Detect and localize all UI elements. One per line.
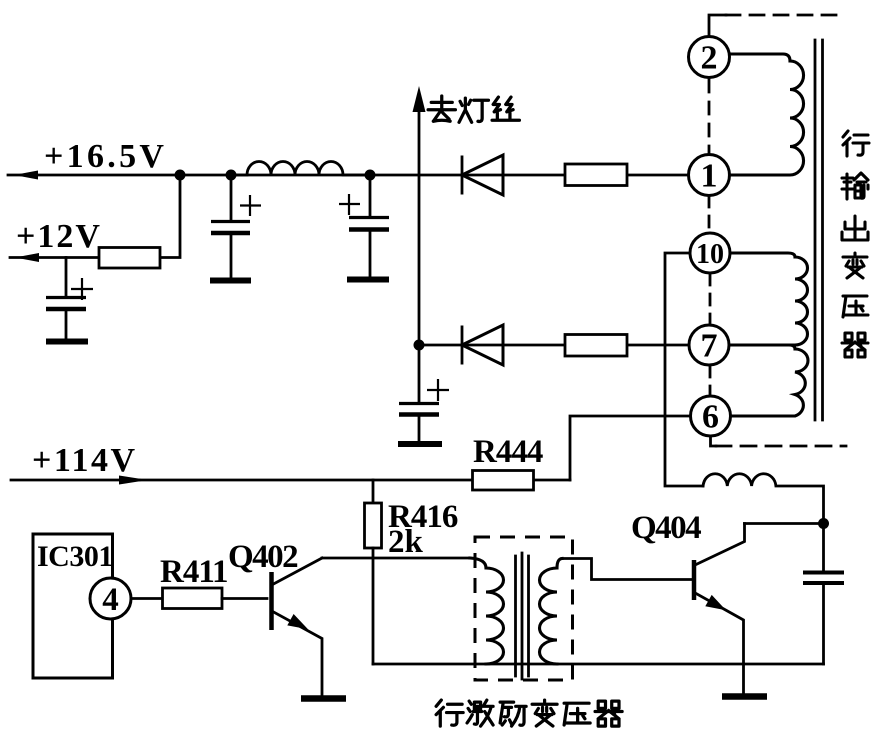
pin 6 circle of flyback (691, 396, 731, 436)
ground under Q404 (722, 693, 767, 700)
label char 变 (843, 253, 867, 278)
svg-text:R444: R444 (473, 434, 543, 470)
resistor (12V dropper, unlabelled) (99, 248, 160, 269)
flyback core line 2 (821, 40, 824, 420)
resistor (series with D2, unlabelled) (565, 335, 627, 357)
drive transformer dashed box (475, 537, 573, 680)
dashed link pin10-pin7 (709, 274, 712, 324)
transistor Q404 (694, 524, 745, 694)
resistor R444 (473, 471, 534, 491)
wire Q404 collector node (745, 522, 824, 525)
svg-text:+16.5V: +16.5V (44, 138, 167, 175)
wire below pin6 then dashed right (711, 436, 717, 446)
junction node at x=370 y=175 (365, 170, 376, 181)
svg-text:2: 2 (701, 40, 718, 77)
wire y=345 from filament line to diode D2 (419, 344, 689, 347)
wire pin10 left then down (x=665) (665, 253, 703, 486)
wire from +16.5V rail down to +12V dropper resistor (160, 175, 180, 258)
label char 励 (500, 702, 526, 726)
svg-text:Q402: Q402 (228, 539, 298, 575)
resistor R411 (163, 588, 223, 609)
wire pin4 to R411 (131, 597, 163, 600)
label 行输出变压器 char 行 (843, 131, 869, 156)
wire Q402 collector to drive transformer primary (322, 557, 470, 560)
svg-text:+12V: +12V (16, 218, 102, 255)
wire: filament feed vertical (x=419) (418, 108, 421, 403)
capacitor C-b (electrolytic right of choke) (339, 175, 389, 280)
label char 器 (595, 701, 622, 726)
arrow left on +12V wire (15, 253, 39, 262)
label 去灯丝 (to filament) char 去 (428, 96, 455, 121)
dashed wire top (726, 14, 846, 17)
label char 激 (467, 700, 493, 726)
inductor L (filter choke on 16.5V rail) (231, 162, 370, 176)
dashed link pin1-pin10 (708, 196, 711, 232)
label 行激励变压器 char 行 (436, 700, 463, 726)
net +16.5V rail wire (y=175) (8, 174, 689, 177)
ground under Q402 (301, 695, 346, 702)
label char 丝 (492, 97, 519, 120)
bottom return wire (y=664) (373, 663, 824, 666)
label char 器 (842, 333, 868, 357)
resistor R416 vertical with leads (365, 480, 382, 664)
arrow up (to filament) (413, 86, 426, 112)
wire secondary to Q404 base (562, 559, 692, 580)
pin 7 circle of flyback (689, 325, 729, 365)
label char 灯 (459, 98, 488, 122)
svg-text:1: 1 (701, 158, 718, 195)
dashed link pin7-pin6 (709, 366, 712, 395)
capacitor C-12V (electrolytic on +12V) (46, 258, 93, 342)
junction node collector (x=823.5 y=523.5) (818, 518, 829, 529)
capacitor C-c (electrolytic at x=419) (398, 379, 449, 444)
pin 1 circle of flyback (689, 155, 730, 196)
pin 2 circle of flyback (689, 37, 730, 78)
label char 变 (532, 700, 557, 726)
svg-text:R411: R411 (160, 554, 228, 590)
IC301 box (33, 534, 113, 678)
drive transformer primary winding (470, 558, 504, 664)
wire R411 to Q402 base (222, 597, 267, 600)
label char 压 (843, 296, 868, 317)
svg-text:2k: 2k (388, 524, 424, 560)
diode D1 (to filament, y=175) (462, 155, 503, 195)
pin 4 circle of IC301 (90, 578, 131, 619)
arrow right on +114V rail (119, 476, 148, 485)
label char 压 (564, 703, 590, 725)
capacitor C-a (electrolytic left of choke) (210, 175, 261, 281)
svg-text:6: 6 (702, 399, 719, 436)
diode D2 (y=345) (462, 325, 503, 365)
svg-text:IC301: IC301 (37, 540, 113, 573)
flyback winding pin10-pin7 (730, 253, 808, 345)
wire from pin2 up then dashed to right (709, 15, 726, 37)
pin 10 circle of flyback (690, 233, 730, 273)
label char 出 (842, 216, 868, 240)
svg-text:4: 4 (102, 582, 119, 618)
junction node at x=180 y=175 (175, 170, 186, 181)
svg-text:7: 7 (701, 328, 718, 365)
flyback winding pin7-pin6 (730, 345, 808, 416)
junction node at x=231 y=175 (226, 170, 237, 181)
drive transformer core (516, 553, 529, 679)
svg-text:+114V: +114V (32, 442, 138, 479)
flyback winding pin2-pin1 (730, 54, 804, 175)
junction node at x=419 y=345 (414, 340, 425, 351)
capacitor (collector to return) (803, 524, 844, 665)
net +114V rail wire (11, 479, 570, 482)
wire pin6 to R444 (left then down) (570, 416, 691, 480)
drive transformer secondary winding (540, 559, 563, 665)
arrow left on +16.5V rail (14, 171, 38, 180)
svg-text:Q404: Q404 (631, 510, 701, 546)
svg-text:10: 10 (696, 239, 724, 270)
net +12V wire (10, 256, 99, 259)
flyback core line 1 (814, 40, 817, 420)
dashed link pin2-pin1 (708, 80, 711, 152)
transistor Q402 (272, 558, 323, 696)
resistor (series with D1, unlabelled) (565, 164, 627, 186)
label char 输 (842, 173, 868, 199)
dashed wire under flyback (716, 445, 846, 448)
inductor at Q404 collector (703, 474, 824, 524)
